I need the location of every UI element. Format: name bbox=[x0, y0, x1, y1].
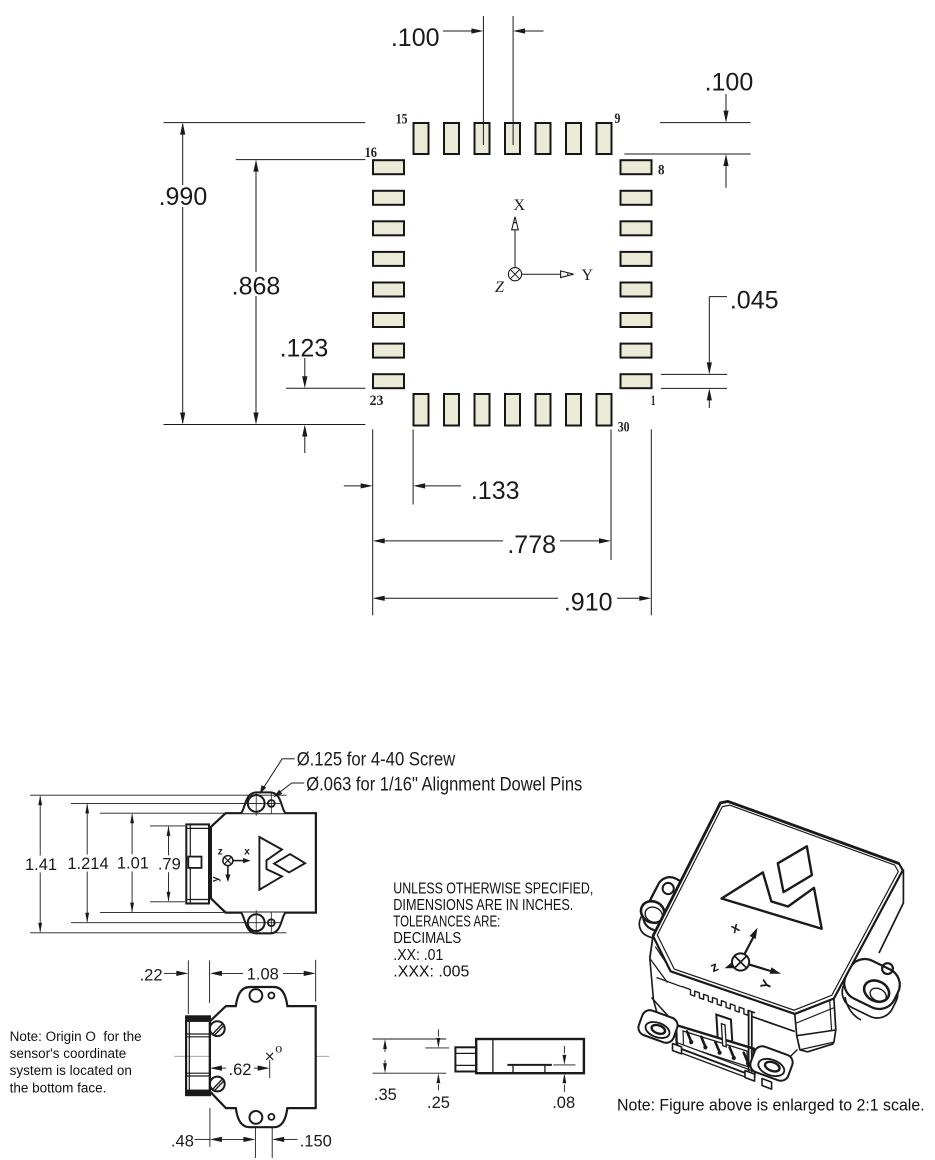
iso left boss bbox=[636, 1008, 680, 1045]
iso right ear thickness bbox=[837, 962, 904, 1023]
svg-text:.25: .25 bbox=[427, 1094, 450, 1112]
dimension .990 bbox=[159, 123, 366, 425]
svg-text:1: 1 bbox=[651, 393, 656, 409]
isometric view of module bbox=[635, 801, 906, 1089]
dimension 1.41 bbox=[25, 795, 287, 933]
module body outline (bottom view) bbox=[210, 987, 316, 1127]
screw hole top (bottom view) bbox=[250, 989, 263, 1002]
top pad row pins 15-9 bbox=[414, 123, 612, 154]
dowel hole top (0.063) bbox=[268, 800, 275, 807]
iso shield top edge bbox=[657, 978, 683, 987]
leader 0.125 screw bbox=[260, 750, 456, 795]
connector block (bottom view) bbox=[186, 1016, 210, 1095]
svg-text:.100: .100 bbox=[391, 24, 440, 52]
screw hole top (0.125) bbox=[248, 795, 265, 812]
svg-text:1.08: 1.08 bbox=[247, 966, 279, 984]
svg-text:.79: .79 bbox=[158, 856, 181, 874]
dimension .868 bbox=[232, 160, 366, 425]
dimension .150 bbox=[272, 1128, 332, 1159]
svg-text:8: 8 bbox=[658, 163, 665, 179]
screw hole bottom (bottom view) bbox=[250, 1111, 263, 1124]
iso axes bbox=[725, 928, 782, 974]
svg-text:23: 23 bbox=[370, 393, 384, 409]
svg-text:Ø.063 for 1/16" Alignment Dowe: Ø.063 for 1/16" Alignment Dowel Pins bbox=[306, 775, 582, 796]
iso right ear dowel hole bbox=[882, 963, 893, 974]
crosshair lines bottom holes bbox=[256, 910, 271, 934]
iso left ear bbox=[639, 873, 689, 936]
dimension .045 bbox=[661, 287, 779, 409]
svg-text:DIMENSIONS ARE IN INCHES.: DIMENSIONS ARE IN INCHES. bbox=[393, 897, 573, 914]
dowel hole bottom bbox=[268, 919, 275, 926]
svg-text:16: 16 bbox=[365, 145, 377, 161]
svg-text:X: X bbox=[514, 197, 526, 214]
svg-text:the bottom face.: the bottom face. bbox=[10, 1080, 107, 1095]
iso connector key slot bbox=[716, 1015, 732, 1047]
svg-text:TOLERANCES ARE:: TOLERANCES ARE: bbox=[393, 914, 500, 931]
side internal line bbox=[492, 1039, 494, 1073]
dowel hole bottom (bottom view) bbox=[268, 1114, 274, 1120]
dimension .910 bbox=[373, 588, 652, 616]
iso connector housing bbox=[676, 1025, 755, 1080]
right pad column pins 8-1 bbox=[621, 160, 652, 388]
dimension 1.08 bbox=[210, 960, 316, 1002]
dimension .48 bbox=[171, 1108, 255, 1158]
svg-text:y: y bbox=[211, 876, 222, 882]
iso right boss bbox=[748, 1044, 795, 1083]
dowel hole top (bottom view) bbox=[268, 993, 274, 999]
origin note bbox=[10, 1029, 142, 1096]
svg-text:1.214: 1.214 bbox=[67, 855, 108, 873]
dimension .100 top bbox=[391, 16, 544, 145]
mesa reference line bbox=[553, 1064, 575, 1066]
svg-text:.868: .868 bbox=[232, 273, 281, 301]
iso left ear dowel hole bbox=[663, 883, 674, 894]
footprint land-pattern drawing bbox=[159, 16, 779, 616]
svg-text:.08: .08 bbox=[552, 1094, 575, 1112]
svg-text:Z: Z bbox=[495, 279, 505, 296]
left pad column pins 16-23 bbox=[373, 160, 404, 388]
leader 0.063 dowel bbox=[274, 775, 583, 798]
svg-text:1.41: 1.41 bbox=[25, 856, 57, 874]
screw head lower bbox=[210, 1077, 225, 1092]
dimension .778 bbox=[373, 531, 611, 559]
X axis arrow bbox=[512, 217, 519, 268]
tolerance note block bbox=[393, 880, 593, 980]
dimension 1.01 bbox=[100, 813, 224, 912]
dimension .08 bbox=[552, 1046, 575, 1112]
dimension .35 bbox=[373, 1039, 447, 1104]
svg-text:30: 30 bbox=[618, 419, 630, 435]
svg-text:.62: .62 bbox=[229, 1061, 252, 1079]
side body bbox=[476, 1039, 584, 1073]
iso right ear underside wall bbox=[845, 997, 861, 1020]
iso S corner wall and flange bbox=[795, 999, 836, 1052]
top view of sensor module bbox=[25, 750, 582, 935]
side connector bbox=[455, 1047, 476, 1071]
connector key notch bbox=[188, 857, 201, 868]
svg-text:.35: .35 bbox=[374, 1086, 397, 1104]
iso top face rim bbox=[657, 805, 898, 1010]
svg-text:system is located on: system is located on bbox=[10, 1063, 132, 1078]
svg-text:.150: .150 bbox=[300, 1133, 332, 1151]
svg-text:15: 15 bbox=[396, 112, 408, 128]
svg-text:.990: .990 bbox=[159, 183, 208, 211]
svg-text:.778: .778 bbox=[507, 531, 556, 559]
svg-text:.133: .133 bbox=[471, 477, 520, 505]
svg-text:DECIMALS: DECIMALS bbox=[393, 930, 461, 947]
iso connector feet bbox=[673, 1044, 772, 1090]
svg-text:.XXX: .005: .XXX: .005 bbox=[393, 963, 469, 980]
svg-text:Note: Origin O for the: Note: Origin O for the bbox=[10, 1029, 142, 1044]
small axes (top view) x right, y down, z into page bbox=[223, 856, 251, 882]
svg-text:1.01: 1.01 bbox=[117, 855, 149, 873]
svg-text:.045: .045 bbox=[730, 287, 779, 315]
svg-text:UNLESS OTHERWISE SPECIFIED,: UNLESS OTHERWISE SPECIFIED, bbox=[393, 880, 593, 897]
module body outline bbox=[211, 813, 316, 912]
svg-text:9: 9 bbox=[615, 111, 621, 127]
dimension .62 bbox=[210, 1061, 270, 1079]
iso shield left edge bbox=[652, 998, 677, 1026]
extension lines below pads bbox=[373, 429, 652, 615]
iso case corner edge bbox=[749, 1011, 752, 1072]
origin symbol Z into page bbox=[508, 268, 521, 281]
Y axis arrow bbox=[522, 271, 574, 278]
screw hole bottom bbox=[248, 914, 265, 931]
bottom sensor mesa bbox=[507, 1065, 552, 1072]
vectornav logo (top view) bbox=[259, 837, 305, 890]
dimension .79 bbox=[150, 826, 185, 902]
iso serration teeth bbox=[682, 987, 755, 1016]
crosshair lines top holes bbox=[256, 792, 271, 816]
svg-text:Y: Y bbox=[582, 267, 594, 284]
connector block (top view) bbox=[186, 824, 209, 903]
iso front-right wall bbox=[752, 1017, 798, 1073]
iso connector pin pads bbox=[689, 1040, 750, 1065]
svg-text:Note: Figure above is enlarged: Note: Figure above is enlarged to 2:1 sc… bbox=[617, 1096, 925, 1114]
svg-text:sensor's coordinate: sensor's coordinate bbox=[10, 1046, 127, 1061]
svg-text:.48: .48 bbox=[171, 1133, 194, 1151]
dimension .133 bbox=[344, 477, 520, 505]
dimension .100 right bbox=[624, 69, 753, 188]
svg-text:.910: .910 bbox=[564, 588, 613, 616]
bottom pad row pins 24-30 bbox=[414, 394, 612, 426]
iso connector pins bbox=[687, 1032, 747, 1062]
centerline bbox=[174, 1055, 329, 1057]
iso top face bbox=[653, 801, 903, 1014]
screw head upper bbox=[210, 1021, 225, 1036]
dimension .123 bbox=[280, 335, 366, 454]
iso vectornav logo bbox=[722, 831, 858, 928]
origin mark O bbox=[266, 1041, 282, 1078]
side view of sensor module bbox=[373, 1030, 584, 1113]
dimension .25 bbox=[425, 1030, 450, 1113]
svg-text:z: z bbox=[218, 846, 223, 857]
svg-text:.22: .22 bbox=[140, 967, 163, 985]
iso right ear bbox=[839, 953, 906, 1014]
iso right ear screw hole bbox=[861, 976, 893, 1005]
iso silhouette overdraw bbox=[653, 801, 899, 936]
top mounting ear bbox=[241, 792, 286, 813]
svg-text:.XX: .01: .XX: .01 bbox=[393, 947, 443, 964]
iso E corner wall bbox=[879, 870, 903, 954]
dimension .22 bbox=[140, 960, 210, 1014]
iso W corner wall bbox=[650, 936, 670, 1013]
iso left ear thickness bbox=[635, 880, 685, 943]
bottom mounting ear bbox=[241, 913, 286, 934]
svg-text:x: x bbox=[244, 846, 250, 857]
svg-text:.100: .100 bbox=[705, 69, 754, 97]
dimension 1.214 bbox=[67, 803, 280, 922]
svg-text:o: o bbox=[275, 1041, 282, 1056]
bottom view of sensor module bbox=[140, 960, 332, 1158]
iso left ear screw hole bbox=[637, 897, 668, 927]
svg-text:.123: .123 bbox=[280, 335, 329, 363]
svg-text:Ø.125 for 4-40 Screw: Ø.125 for 4-40 Screw bbox=[297, 750, 456, 771]
